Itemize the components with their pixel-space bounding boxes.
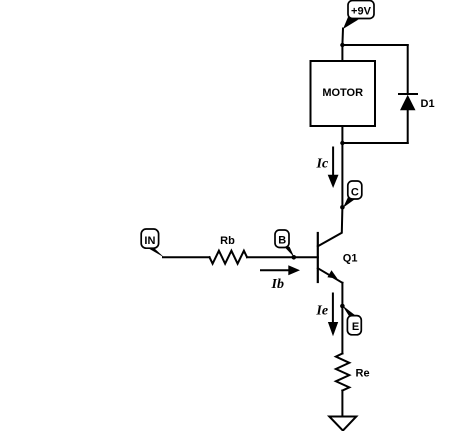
svg-text:C: C — [351, 186, 359, 198]
svg-text:Q1: Q1 — [343, 253, 358, 265]
svg-text:Rb: Rb — [220, 235, 235, 247]
svg-text:B: B — [278, 234, 286, 246]
svg-text:IN: IN — [144, 235, 155, 247]
svg-text:Re: Re — [356, 368, 370, 380]
svg-text:D1: D1 — [421, 98, 435, 110]
svg-text:Ib: Ib — [271, 277, 284, 292]
svg-text:Ic: Ic — [316, 156, 329, 171]
svg-text:MOTOR: MOTOR — [322, 87, 363, 99]
svg-text:Ie: Ie — [315, 303, 328, 318]
svg-text:+9V: +9V — [351, 6, 372, 18]
svg-text:E: E — [352, 321, 359, 333]
